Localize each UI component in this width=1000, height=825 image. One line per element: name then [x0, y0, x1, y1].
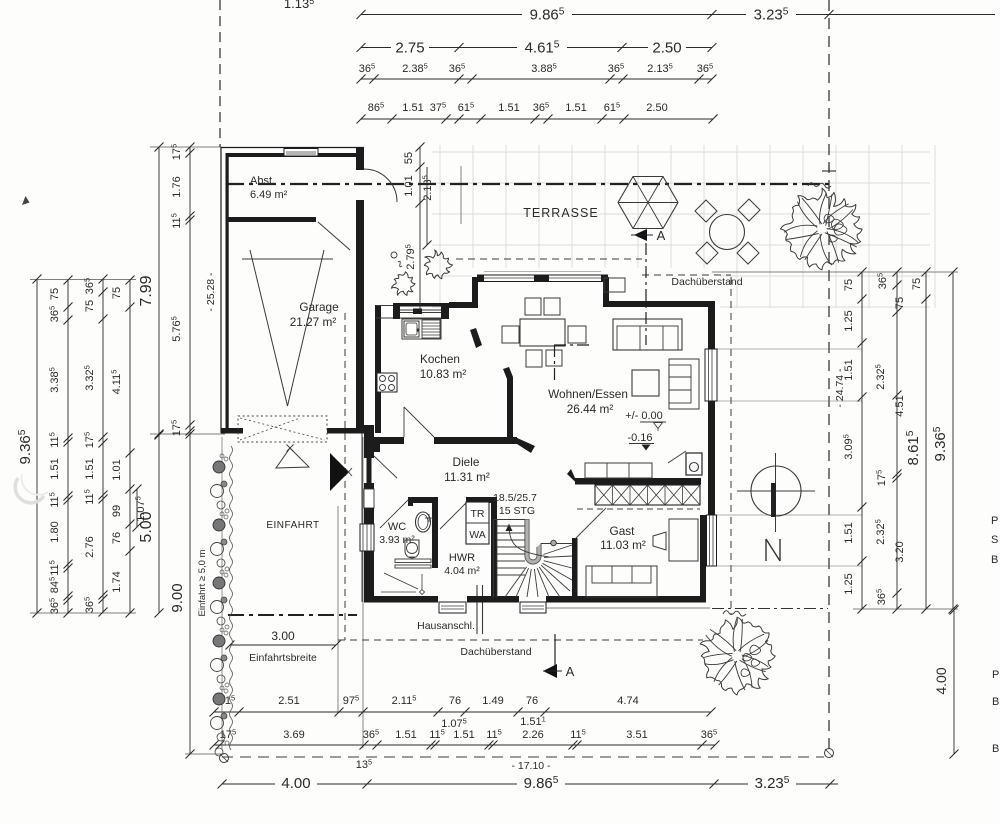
svg-text:2.51: 2.51 — [278, 695, 299, 707]
svg-text:1.51: 1.51 — [843, 522, 855, 543]
scan hole punch mark — [15, 478, 44, 503]
terrace round table — [710, 215, 745, 250]
svg-text:76: 76 — [111, 532, 123, 544]
svg-text:S: S — [991, 534, 998, 546]
svg-text:A: A — [657, 228, 666, 243]
wc floor diagonal — [384, 573, 418, 589]
dim chain right R4 9.36 — [952, 272, 954, 609]
wc drain line — [421, 574, 423, 589]
extension line chain F2 bottom — [185, 753, 224, 755]
west wall below window — [364, 551, 374, 602]
svg-text:Abst.: Abst. — [250, 175, 275, 187]
open triangle marker below garage — [276, 448, 309, 468]
tree bottom right — [700, 617, 775, 695]
svg-text:B: B — [991, 554, 998, 566]
svg-text:4.04 m²: 4.04 m² — [444, 565, 480, 577]
svg-text:1.51: 1.51 — [395, 729, 416, 741]
boundary tick right top — [822, 170, 836, 172]
marker x at arrow tip — [345, 468, 352, 476]
roof overhang dashed above house — [456, 258, 642, 260]
svg-text:75: 75 — [49, 288, 61, 300]
svg-text:1.51: 1.51 — [402, 102, 423, 114]
coffee table — [632, 370, 659, 396]
svg-text:WC: WC — [388, 521, 406, 533]
parasol hexagon — [618, 177, 678, 229]
dim chain right R1 — [861, 272, 863, 609]
wohnen north wall pillars — [477, 275, 484, 282]
property boundary dashed left top — [219, 0, 221, 147]
dim chain 2.13 vertical — [426, 167, 428, 245]
terrace paving grid — [432, 145, 935, 308]
diele wall flare diagonal — [515, 437, 535, 453]
svg-text:- 17.10 -: - 17.10 - — [511, 760, 551, 772]
diele top wall — [368, 437, 404, 444]
wohnen west wall vertical — [507, 377, 513, 437]
dim chain left F2 9.00 — [189, 434, 191, 754]
diele/wohnen wall horizontal — [434, 437, 517, 444]
gast desk — [669, 519, 698, 561]
kitchen sink — [404, 321, 419, 337]
roof overhang dashed garage vertical — [344, 313, 346, 640]
dim chain left F walls — [189, 147, 191, 434]
kitchen bay side stubs — [393, 303, 400, 319]
svg-text:B: B — [992, 743, 999, 755]
garage horizontal mark — [242, 258, 333, 260]
diele top wall step — [374, 444, 380, 452]
wc drain diamond — [420, 590, 425, 595]
dash-dot segment y608 — [712, 608, 828, 610]
svg-text:26.44 m²: 26.44 m² — [567, 402, 614, 416]
svg-text:Garage: Garage — [299, 300, 339, 314]
section arrow A top — [634, 229, 647, 241]
svg-text:10.83 m²: 10.83 m² — [420, 367, 467, 381]
svg-text:1.51: 1.51 — [565, 102, 586, 114]
svg-text:15 STG: 15 STG — [499, 505, 535, 517]
svg-text:- 24.74 -: - 24.74 - — [834, 368, 846, 408]
wc door leaf — [380, 500, 408, 528]
dim chain right R2 — [896, 272, 898, 609]
extension line left chains top y279 — [30, 279, 136, 281]
garage bottom wall right stub — [327, 428, 364, 434]
svg-text:1.74: 1.74 — [111, 571, 123, 592]
svg-text:TR: TR — [471, 508, 485, 520]
svg-text:4.51: 4.51 — [894, 395, 906, 416]
stair newel circle — [551, 540, 557, 546]
svg-text:Dachüberstand: Dachüberstand — [460, 646, 531, 658]
abst door arc — [364, 169, 397, 202]
section line A jog horizontal — [554, 344, 592, 346]
svg-text:2.75: 2.75 — [395, 40, 424, 57]
dim chain top openings row — [361, 118, 713, 120]
svg-text:11.03 m²: 11.03 m² — [600, 538, 646, 552]
service connection double lines — [476, 585, 478, 634]
dim chain 55/1.01 vertical — [419, 147, 421, 310]
dim chain bottom B2 — [214, 744, 715, 746]
dim chain left E 7.99 — [158, 147, 160, 434]
svg-text:Dachüberstand: Dachüberstand — [671, 276, 742, 288]
svg-text:4.00: 4.00 — [933, 667, 949, 694]
dim chain right R3 8.61 — [925, 272, 927, 609]
svg-text:1.80: 1.80 — [49, 521, 61, 542]
gast sofa — [586, 566, 657, 597]
wohnen east wall — [708, 307, 715, 349]
abst top window — [284, 148, 318, 151]
wc toilet — [405, 540, 419, 558]
svg-text:B: B — [992, 696, 999, 708]
wohnen north wall right part — [603, 301, 715, 307]
stair walk line — [509, 524, 549, 557]
svg-text:11.31 m²: 11.31 m² — [444, 470, 490, 484]
garage door dotted diagonals — [240, 418, 325, 440]
kitchen divider stub angled — [470, 328, 482, 348]
extension line x338 — [337, 506, 339, 712]
dim chain right R5 4.00 vertical — [953, 610, 955, 754]
boundary marker circle bottom right — [825, 749, 834, 758]
svg-text:Einfahrtsbreite: Einfahrtsbreite — [249, 652, 317, 664]
gast top wall — [575, 478, 701, 485]
bush left of bay — [391, 272, 415, 296]
svg-text:76: 76 — [449, 695, 461, 707]
dim sub-chain 1.07 — [136, 489, 138, 527]
gast chair — [653, 532, 666, 550]
small scan mark top left — [22, 196, 30, 205]
hwr right wall — [491, 497, 497, 597]
svg-text:P: P — [991, 515, 998, 527]
section line A jog vertical — [554, 345, 556, 382]
svg-text:75: 75 — [84, 300, 96, 312]
dim chain left E2 5.00 — [158, 435, 160, 613]
hwr top wall — [466, 497, 497, 503]
terrace chairs diamonds — [695, 200, 717, 222]
stair top line — [494, 519, 530, 521]
stair enclosure left line — [493, 519, 495, 597]
property boundary dashed right — [828, 0, 830, 749]
armchair east — [669, 359, 699, 409]
wc bottom line — [381, 591, 416, 593]
entrance threshold below HWR — [439, 602, 466, 613]
west window sill — [360, 524, 374, 551]
heavy dash-dot axis line through Abst and terrace — [226, 183, 832, 185]
kitchen bay outer wall — [393, 303, 449, 307]
stair right boundary line — [541, 543, 572, 545]
garage wall top — [221, 147, 364, 149]
extension line x363 — [362, 437, 364, 748]
svg-text:2.50: 2.50 — [652, 40, 681, 57]
garage right wall — [356, 222, 364, 433]
bottom property dashed line — [222, 756, 824, 758]
kitchen bay inner line — [400, 317, 441, 319]
svg-text:1.51: 1.51 — [498, 102, 519, 114]
svg-text:55: 55 — [403, 152, 415, 164]
extension lines windows right — [717, 348, 862, 350]
wohnen north wall band — [477, 274, 608, 276]
tree top right — [780, 188, 862, 270]
gast east window — [707, 515, 717, 566]
garage V mark right — [288, 250, 325, 406]
svg-text:EINFAHRT: EINFAHRT — [266, 520, 319, 531]
svg-text:Hausanschl.: Hausanschl. — [417, 620, 475, 632]
svg-text:3.20: 3.20 — [894, 541, 906, 562]
svg-text:1.25: 1.25 — [843, 573, 855, 594]
gast top wall flare — [567, 469, 578, 485]
svg-text:9.00: 9.00 — [169, 583, 186, 612]
wohnen sill gray line — [484, 271, 601, 273]
dining chair left — [502, 326, 519, 343]
filled arrow marker driveway — [330, 453, 349, 491]
svg-text:75: 75 — [843, 279, 855, 291]
wall between abst and garage — [227, 217, 316, 222]
svg-text:2.76: 2.76 — [84, 536, 96, 557]
svg-text:P: P — [992, 669, 999, 681]
svg-text:3.69: 3.69 — [283, 729, 304, 741]
garage bottom wall left stub — [221, 428, 243, 434]
svg-text:75: 75 — [911, 278, 923, 290]
svg-text:- 25.28 -: - 25.28 - — [205, 272, 217, 312]
wohnen west wall angled cap — [503, 367, 513, 379]
svg-text:75: 75 — [111, 287, 123, 299]
tr/wa closet — [466, 502, 489, 544]
svg-text:1.01: 1.01 — [403, 175, 415, 196]
svg-text:99: 99 — [111, 505, 123, 517]
svg-text:+/- 0.00: +/- 0.00 — [625, 410, 663, 422]
extension line left y434 — [150, 433, 225, 435]
svg-text:21.27 m²: 21.27 m² — [290, 315, 337, 329]
kitchen bay glazing — [396, 309, 446, 311]
extension line left chains bottom y613 — [30, 612, 136, 614]
garage outer wall left thin — [220, 147, 222, 433]
svg-text:3.93 m²: 3.93 m² — [379, 534, 415, 546]
chimney box — [686, 453, 702, 475]
svg-text:4.00: 4.00 — [281, 775, 310, 792]
garage door dotted swing box — [238, 416, 327, 442]
svg-text:4.74: 4.74 — [617, 695, 638, 707]
svg-text:HWR: HWR — [449, 552, 475, 564]
house bottom wall — [364, 596, 438, 603]
dim chain left C — [102, 279, 104, 612]
hwr door leaf — [440, 503, 466, 529]
wohnen east window — [705, 349, 717, 401]
roof overhang dashed right vertical — [730, 277, 732, 614]
west wall between opening and window — [364, 508, 374, 524]
dim 3.00 Einfahrtsbreite — [230, 644, 336, 646]
dim chain left B — [67, 280, 69, 613]
entrance door swing line — [374, 456, 397, 478]
small circle near bush — [391, 252, 397, 258]
house west wall lower — [364, 425, 374, 458]
section arrow A bottom — [554, 634, 556, 670]
kitchen drainer hatch — [422, 320, 440, 338]
svg-text:Wohnen/Essen: Wohnen/Essen — [548, 387, 628, 401]
svg-text:3.00: 3.00 — [271, 629, 295, 643]
roof overhang dashed top right horizontal — [642, 274, 731, 276]
roof overhang dashed bottom — [338, 639, 703, 641]
wohnen ne step wall vertical — [603, 277, 609, 307]
wohnen nw pillar — [472, 277, 478, 308]
hedge planting dots left boundary — [221, 437, 223, 750]
kitchen door leaf diagonal — [404, 407, 434, 437]
bush right of bay — [424, 250, 452, 279]
boundary marker circle bottom left — [220, 754, 229, 763]
svg-text:1.49: 1.49 — [482, 695, 503, 707]
wohnen nw connector wall — [449, 302, 472, 308]
svg-text:75: 75 — [894, 297, 906, 309]
sofa north — [613, 319, 682, 350]
squiggle near bush — [398, 261, 402, 266]
stair fan treads — [505, 567, 527, 597]
svg-text:WA: WA — [469, 529, 486, 541]
dash-dot driveway axis bottom — [228, 614, 357, 616]
dining table — [520, 319, 565, 346]
dim chain bottom B1 — [214, 711, 711, 713]
gast x-band sideboard — [595, 485, 700, 505]
wc sink — [416, 512, 431, 532]
dining chairs bottom — [526, 350, 542, 367]
west wall stub below door — [364, 483, 374, 489]
entrance door leaf bar — [367, 457, 372, 483]
section line A vertical — [645, 243, 647, 345]
svg-text:TERRASSE: TERRASSE — [523, 206, 598, 220]
svg-text:A: A — [566, 664, 575, 679]
svg-text:1.76: 1.76 — [171, 176, 183, 197]
gast door leaf — [575, 508, 606, 539]
abst right wall upper stub — [356, 148, 364, 170]
house white cover — [449, 268, 720, 604]
wc shelf bands — [395, 559, 431, 563]
kitchen top connector lines — [376, 305, 393, 307]
wc top wall — [408, 497, 437, 503]
plinth line below house — [540, 607, 710, 609]
garage wall left inner — [226, 153, 229, 433]
dim chain left D — [129, 280, 131, 613]
kitchen counter outline — [402, 319, 441, 339]
extension line right top y272 — [712, 271, 958, 273]
wohnen bench seat row — [585, 463, 652, 478]
svg-text:-0.16: -0.16 — [627, 432, 652, 444]
kitchen hob — [377, 373, 397, 392]
svg-text:7.99: 7.99 — [138, 275, 155, 306]
extension line y609 at chains — [853, 608, 958, 610]
gast east wall — [700, 521, 706, 602]
dining chairs top — [525, 298, 541, 315]
stair straight treads — [497, 525, 525, 527]
gast dashed line under sideboard — [577, 508, 700, 510]
east wall jog horizontal — [700, 515, 715, 521]
dim chain bottom B3 totals — [222, 783, 838, 785]
svg-text:2.50: 2.50 — [646, 102, 667, 114]
svg-text:1.51: 1.51 — [453, 729, 474, 741]
dim chain top 2.75/4.61/2.50 — [361, 47, 712, 49]
svg-text:2.26: 2.26 — [522, 729, 543, 741]
terrace extension line x461 — [460, 166, 462, 224]
extension line left top y147 — [150, 146, 221, 148]
svg-text:1.01: 1.01 — [111, 459, 123, 480]
dim chain top walls row — [361, 78, 712, 80]
svg-text:3.51: 3.51 — [626, 729, 647, 741]
svg-text:6.49 m²: 6.49 m² — [250, 189, 288, 201]
svg-text:Gast: Gast — [610, 524, 636, 538]
west wall outer thin line — [361, 425, 363, 602]
abst-garage door leaf — [318, 222, 350, 250]
svg-text:1.51: 1.51 — [49, 458, 61, 479]
abst right wall lower stub — [356, 200, 364, 222]
dining chair right — [568, 326, 586, 343]
threshold below stairs — [520, 602, 546, 613]
stair inner stringer U — [525, 519, 541, 564]
stair right wall — [572, 538, 578, 597]
svg-text:1.25: 1.25 — [843, 310, 855, 331]
wc hwr divider wall — [432, 497, 438, 568]
kitchen west wall — [375, 305, 381, 433]
dim chain left A 9.36 — [36, 279, 38, 613]
north arrow — [751, 466, 801, 516]
svg-text:Diele: Diele — [453, 455, 480, 469]
svg-text:1.51: 1.51 — [84, 458, 96, 479]
svg-text:Kochen: Kochen — [420, 352, 460, 366]
svg-text:5.00: 5.00 — [138, 511, 155, 542]
stair U hatch — [525, 519, 541, 564]
svg-text:Einfahrt ≥ 5,0 m: Einfahrt ≥ 5,0 m — [197, 549, 208, 616]
letter N — [765, 539, 767, 561]
chimney corner diagonal — [668, 451, 686, 463]
garage V mark left — [250, 250, 288, 406]
svg-text:76: 76 — [526, 695, 538, 707]
svg-text:18.5/25.7: 18.5/25.7 — [493, 492, 537, 504]
terrace box at step — [604, 278, 625, 292]
west wall opening 489-508 — [364, 489, 374, 508]
dim chain top total 9.86/3.23 — [361, 14, 995, 16]
